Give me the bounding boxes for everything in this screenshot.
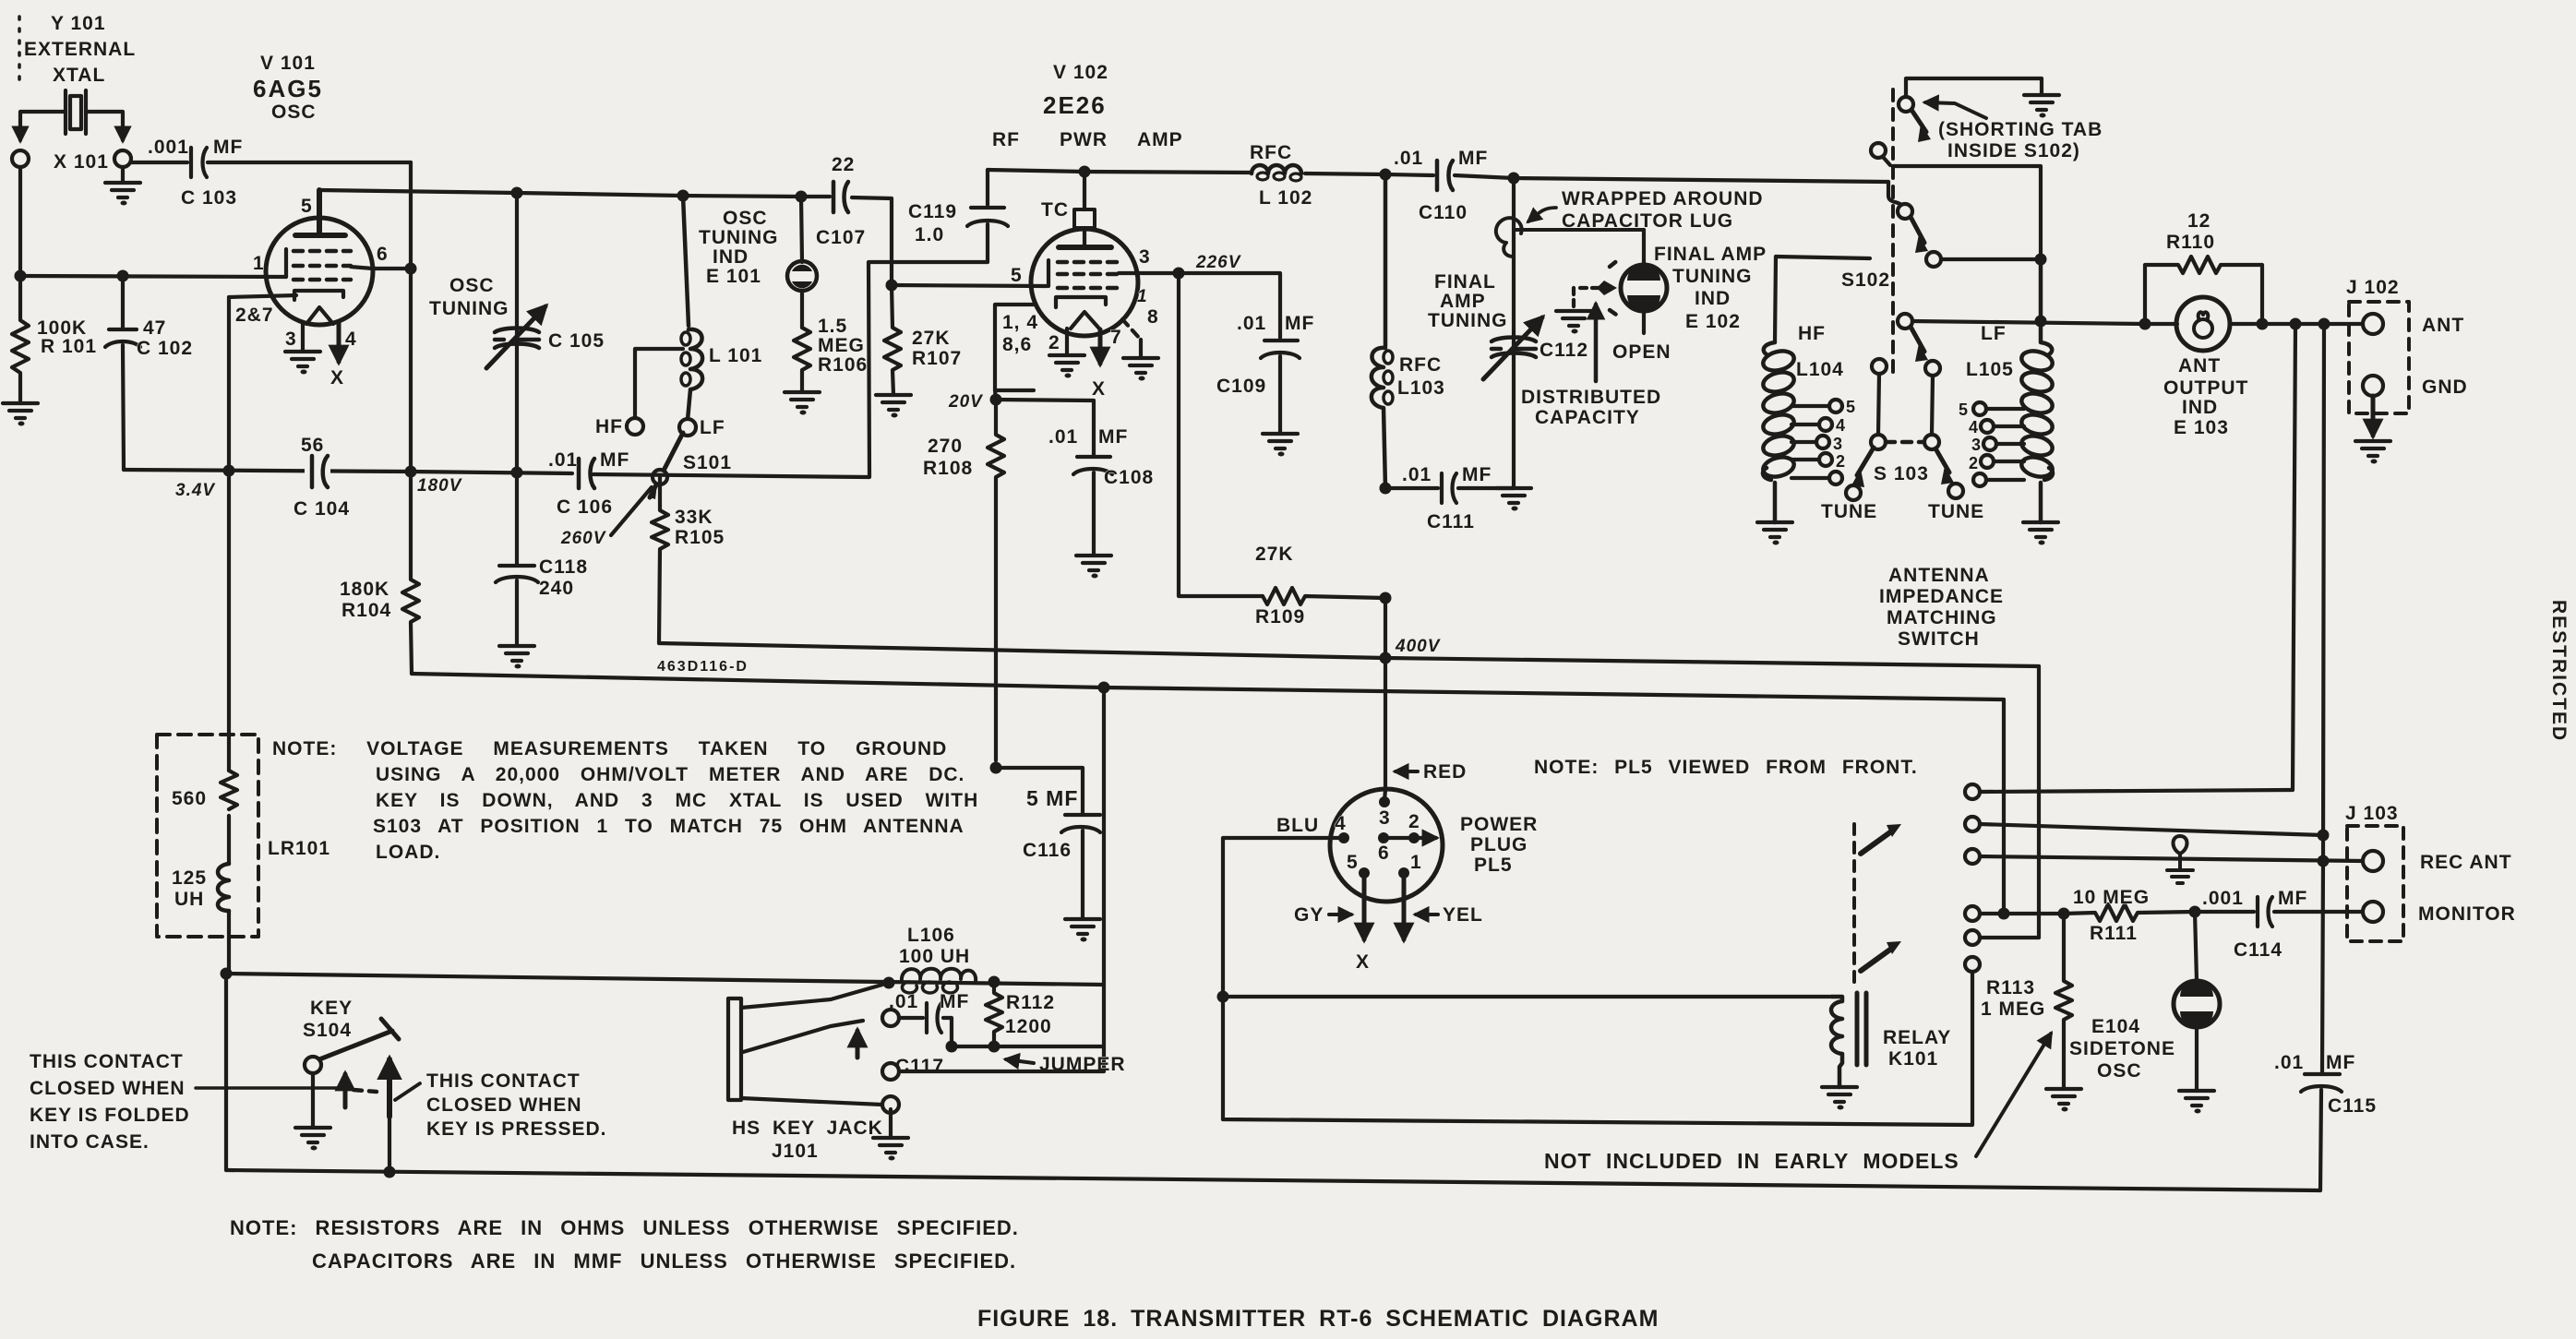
svg-text:R110: R110 xyxy=(2166,232,2215,253)
svg-text:180K: 180K xyxy=(340,579,389,600)
svg-text:4: 4 xyxy=(1969,418,1979,436)
svg-text:4: 4 xyxy=(1836,416,1846,435)
node relay c1 riser xyxy=(2290,318,2302,330)
svg-text:C116: C116 xyxy=(1023,840,1072,861)
svg-text:FINAL: FINAL xyxy=(1434,271,1496,293)
taps L105 xyxy=(1986,409,2024,480)
ground under X101 right xyxy=(121,167,125,183)
svg-text:R111: R111 xyxy=(2090,923,2138,944)
svg-text:1 MEG: 1 MEG xyxy=(1981,998,2045,1020)
svg-text:270: 270 xyxy=(928,436,963,457)
capacitor C102 xyxy=(105,276,140,470)
wire cathode lead to LR101 column xyxy=(229,295,296,471)
svg-text:1, 4: 1, 4 xyxy=(1002,312,1038,333)
wire crystal left lead xyxy=(20,112,66,140)
ground L105 xyxy=(2023,522,2058,545)
wire pressed contact to bottom bus xyxy=(388,1098,391,1172)
svg-text:E 103: E 103 xyxy=(2174,417,2229,438)
node 20V xyxy=(990,394,1002,406)
contact P4 xyxy=(1898,314,1912,329)
label THIS CONTACT CLOSED WHEN KEY IS PRESSED with leader xyxy=(395,1083,420,1100)
svg-text:TUNING: TUNING xyxy=(1672,266,1753,287)
svg-text:E104: E104 xyxy=(2091,1016,2140,1037)
svg-text:5: 5 xyxy=(1011,265,1023,286)
wire 400V line xyxy=(659,643,2039,938)
svg-text:MF: MF xyxy=(600,449,629,471)
terminal X101 left xyxy=(12,150,29,167)
wire P3 to column xyxy=(1941,257,2041,261)
pin 2 xyxy=(1408,832,1420,843)
svg-text:1200: 1200 xyxy=(1005,1016,1052,1037)
capacitor TC xyxy=(1083,172,1086,209)
svg-text:(SHORTING TAB: (SHORTING TAB xyxy=(1938,119,2103,140)
svg-text:RESTRICTED: RESTRICTED xyxy=(2548,600,2570,742)
svg-text:C109: C109 xyxy=(1216,376,1266,397)
resistor R104 xyxy=(402,472,419,674)
capacitor C106 xyxy=(579,459,594,488)
dashed armature link xyxy=(1852,824,1856,987)
ground R107 xyxy=(876,395,911,418)
node C111 junction xyxy=(1380,483,1392,495)
svg-text:TUNING: TUNING xyxy=(1428,310,1508,331)
wire bottom bus xyxy=(226,1170,2320,1190)
svg-text:TUNING: TUNING xyxy=(699,227,779,248)
svg-text:C111: C111 xyxy=(1427,511,1475,532)
taps L104 xyxy=(1791,406,1828,478)
svg-text:MF: MF xyxy=(940,991,969,1012)
svg-text:XTAL: XTAL xyxy=(53,65,105,86)
svg-text:C119: C119 xyxy=(908,201,957,222)
wire P2 loop to right column xyxy=(1893,166,2041,259)
wire P5 to S103 right pole xyxy=(1932,376,1933,435)
node R107 top xyxy=(886,280,898,292)
ground L104 xyxy=(1757,522,1792,545)
svg-text:2: 2 xyxy=(1048,332,1060,353)
svg-text:J101: J101 xyxy=(772,1141,819,1162)
resistor R111 xyxy=(2064,904,2195,921)
terminal J103 REC ANT xyxy=(2363,851,2383,871)
node C114 left xyxy=(2189,906,2201,918)
svg-text:1: 1 xyxy=(1410,852,1422,873)
svg-text:THIS CONTACT: THIS CONTACT xyxy=(30,1051,184,1072)
wire top bus V102 plate node xyxy=(988,170,1252,173)
node P3 column junction xyxy=(2035,254,2047,266)
svg-text:NOT INCLUDED IN EARLY MODELS: NOT INCLUDED IN EARLY MODELS xyxy=(1544,1149,1959,1173)
svg-text:ANT: ANT xyxy=(2422,315,2464,336)
svg-text:.01: .01 xyxy=(1402,464,1432,485)
svg-text:YEL: YEL xyxy=(1443,904,1483,926)
switch arm P1 xyxy=(1911,110,1926,132)
svg-text:C112: C112 xyxy=(1540,340,1588,361)
svg-text:CLOSED WHEN: CLOSED WHEN xyxy=(30,1078,186,1099)
svg-text:MF: MF xyxy=(213,137,243,158)
terminal X101 right xyxy=(114,150,131,167)
contact P3 xyxy=(1926,252,1941,267)
svg-text:X 101: X 101 xyxy=(54,151,109,173)
svg-text:226V: 226V xyxy=(1195,253,1241,272)
node C118 top xyxy=(511,467,523,479)
svg-text:NOTE: VOLTAGE MEASUREMENTS TAK: NOTE: VOLTAGE MEASUREMENTS TAKEN TO GROU… xyxy=(272,738,947,759)
svg-text:C 103: C 103 xyxy=(181,187,237,209)
capacitor C118 xyxy=(496,472,538,646)
svg-text:GY: GY xyxy=(1294,904,1324,926)
contact arrow pressed xyxy=(387,1059,392,1117)
node C102 junction xyxy=(117,270,129,282)
svg-text:CAPACITOR LUG: CAPACITOR LUG xyxy=(1562,210,1733,232)
S103 left wiper xyxy=(1857,448,1874,475)
wire pin3 xyxy=(1119,273,1280,338)
svg-text:V 101: V 101 xyxy=(260,53,316,74)
svg-text:EXTERNAL: EXTERNAL xyxy=(24,39,136,60)
svg-text:R109: R109 xyxy=(1255,606,1305,628)
svg-text:J 102: J 102 xyxy=(2346,277,2400,298)
resistor R101 xyxy=(12,276,29,403)
svg-text:10 MEG: 10 MEG xyxy=(2073,887,2150,908)
svg-text:C115: C115 xyxy=(2328,1095,2377,1117)
ground E104 xyxy=(2179,1091,2214,1114)
tube V102 plate xyxy=(1059,245,1111,250)
wire pin8 dashed xyxy=(1122,319,1141,340)
svg-text:X: X xyxy=(1356,951,1370,973)
node C117 jumper junction xyxy=(946,1041,958,1053)
ground R106 xyxy=(785,392,820,415)
svg-text:5: 5 xyxy=(1846,398,1856,416)
tube V102 grid rail xyxy=(1047,260,1050,286)
svg-text:2&7: 2&7 xyxy=(235,305,274,326)
capacitor C107 xyxy=(833,182,848,212)
svg-text:1.0: 1.0 xyxy=(915,224,944,245)
ground C109 xyxy=(1263,434,1298,457)
tube V101 plate xyxy=(295,190,345,235)
wire grid line to V101 pin1 xyxy=(20,276,286,277)
capacitor C108 xyxy=(1073,457,1112,556)
node cathode column xyxy=(223,465,235,477)
svg-text:2E26: 2E26 xyxy=(1043,91,1107,119)
svg-text:TUNE: TUNE xyxy=(1821,501,1877,522)
ground R101 xyxy=(3,403,38,426)
contact c4 monitor line xyxy=(1965,906,1980,921)
svg-text:R113: R113 xyxy=(1986,977,2035,998)
svg-text:2: 2 xyxy=(1836,452,1846,471)
pin 6 wire xyxy=(1378,832,1389,843)
inductor LR101 125UH xyxy=(218,864,229,911)
tube V102 heater xyxy=(1071,312,1099,329)
svg-text:180V: 180V xyxy=(417,476,462,496)
svg-text:2: 2 xyxy=(1969,454,1979,472)
wire 3.4V cathode line xyxy=(124,470,411,472)
svg-text:LOAD.: LOAD. xyxy=(376,842,440,863)
inductor L101 xyxy=(683,196,702,420)
svg-text:OUTPUT: OUTPUT xyxy=(2163,377,2248,399)
wire C115 column down xyxy=(2323,324,2324,861)
wire c1 riser down xyxy=(2293,324,2295,790)
terminal HF xyxy=(627,418,643,435)
svg-text:L106: L106 xyxy=(907,925,955,946)
wire P4 line to E103 xyxy=(1912,321,2145,324)
wire jumper line xyxy=(952,1045,1104,1048)
svg-text:MEG: MEG xyxy=(818,335,865,356)
svg-text:RF: RF xyxy=(992,129,1020,150)
capacitor C103 xyxy=(131,148,411,177)
svg-text:CAPACITORS ARE IN MMF UNLESS O: CAPACITORS ARE IN MMF UNLESS OTHERWISE S… xyxy=(312,1249,1016,1273)
svg-text:L 101: L 101 xyxy=(709,345,762,366)
svg-text:R108: R108 xyxy=(923,458,973,479)
crystal Y101 xyxy=(66,90,86,134)
svg-text:BLU: BLU xyxy=(1276,815,1319,836)
svg-text:L105: L105 xyxy=(1966,359,2014,380)
ground C116 xyxy=(1065,919,1100,942)
svg-text:TC: TC xyxy=(1041,199,1069,221)
dashed open lead with diamond xyxy=(1580,286,1602,290)
svg-text:OSC: OSC xyxy=(723,208,768,229)
ground C111/C112 xyxy=(1496,488,1531,511)
svg-text:5 MF: 5 MF xyxy=(1026,786,1078,810)
svg-text:ANTENNA: ANTENNA xyxy=(1888,565,1990,586)
svg-text:TUNING: TUNING xyxy=(429,298,509,319)
wire pin6 xyxy=(351,267,411,269)
svg-text:LF: LF xyxy=(1981,323,2007,344)
wire pin4 arrow xyxy=(337,322,341,362)
jack J101 sleeve xyxy=(882,1096,899,1113)
svg-text:C114: C114 xyxy=(2234,939,2282,961)
wire GND to ground xyxy=(2371,396,2376,436)
svg-text:IND: IND xyxy=(713,246,749,268)
node R112 bottom xyxy=(988,1041,1000,1053)
node C105 top xyxy=(511,187,523,199)
indicator lamp E102 xyxy=(1642,230,1646,333)
svg-text:S 103: S 103 xyxy=(1874,463,1929,484)
svg-text:Y 101: Y 101 xyxy=(51,13,106,34)
wire pin7 arrow xyxy=(1098,329,1103,364)
svg-text:RELAY: RELAY xyxy=(1883,1027,1951,1048)
svg-text:C 106: C 106 xyxy=(557,496,613,518)
svg-text:MF: MF xyxy=(2278,888,2307,909)
relay armature arm lower xyxy=(1861,947,1894,971)
ground shorting tab xyxy=(2024,95,2059,118)
svg-text:NOTE: PL5 VIEWED FROM FRONT.: NOTE: PL5 VIEWED FROM FRONT. xyxy=(1534,757,1918,778)
svg-text:.001: .001 xyxy=(2202,888,2244,909)
svg-text:AMP: AMP xyxy=(1440,291,1486,312)
svg-text:L104: L104 xyxy=(1796,359,1844,380)
svg-text:R106: R106 xyxy=(818,354,868,376)
tube V101 cathode xyxy=(294,291,343,300)
svg-text:C117: C117 xyxy=(895,1056,944,1077)
svg-text:6: 6 xyxy=(1378,843,1390,864)
contact arrow folded xyxy=(343,1074,348,1107)
svg-text:3: 3 xyxy=(285,329,297,350)
pin 4 xyxy=(1338,832,1349,843)
svg-text:MF: MF xyxy=(2326,1052,2355,1073)
svg-text:IND: IND xyxy=(2182,397,2218,418)
resistor R108 xyxy=(988,400,1004,760)
contact c5 xyxy=(1965,930,1980,945)
node E103 right xyxy=(2257,318,2269,330)
svg-text:SIDETONE: SIDETONE xyxy=(2069,1038,2175,1059)
node pin6/C103 junction xyxy=(405,263,417,275)
wrap lug symbol on REC ANT xyxy=(2174,836,2187,868)
arrow shorting tab pointer xyxy=(1925,102,1986,118)
svg-text:PL5: PL5 xyxy=(1474,855,1513,876)
svg-text:3.4V: 3.4V xyxy=(175,481,215,500)
svg-text:K101: K101 xyxy=(1888,1048,1938,1070)
svg-text:PLUG: PLUG xyxy=(1470,834,1528,855)
resistor R106 xyxy=(794,328,810,392)
plug PL5 circle xyxy=(1330,789,1443,902)
svg-text:22: 22 xyxy=(832,154,855,175)
svg-text:7: 7 xyxy=(1110,327,1122,348)
svg-text:REC ANT: REC ANT xyxy=(2420,852,2512,873)
wire HF tap xyxy=(635,349,683,418)
svg-text:HF: HF xyxy=(1798,323,1826,344)
resistor R109 xyxy=(1263,588,1385,604)
svg-text:27K: 27K xyxy=(912,328,951,349)
svg-text:2: 2 xyxy=(1408,811,1420,832)
node C115 column top xyxy=(2318,318,2330,330)
svg-text:.01: .01 xyxy=(1048,426,1078,448)
svg-text:C107: C107 xyxy=(816,227,866,248)
pin 5 xyxy=(1359,867,1370,879)
svg-text:3: 3 xyxy=(1379,807,1391,829)
label RED arrow xyxy=(1396,770,1418,773)
svg-text:HS KEY JACK: HS KEY JACK xyxy=(732,1118,883,1139)
ground R113 xyxy=(2046,1089,2081,1112)
svg-text:S104: S104 xyxy=(303,1020,352,1041)
contact c3 REC ANT line xyxy=(1965,849,1980,864)
svg-text:WRAPPED AROUND: WRAPPED AROUND xyxy=(1562,188,1764,209)
node line2 end xyxy=(1998,908,2010,920)
inductor L105 xyxy=(2041,259,2053,522)
svg-text:5: 5 xyxy=(301,196,313,217)
wire pin2 ground xyxy=(1065,329,1069,355)
svg-text:1: 1 xyxy=(253,253,265,274)
svg-text:3: 3 xyxy=(1833,435,1843,453)
ground C108 xyxy=(1076,556,1111,579)
pin 1 xyxy=(1398,867,1409,879)
svg-text:OPEN: OPEN xyxy=(1612,341,1671,363)
wire cathode column through LR101 xyxy=(226,471,229,1170)
wire X101 left down to grid line xyxy=(18,167,22,276)
svg-text:27K: 27K xyxy=(1255,544,1294,565)
svg-text:6AG5: 6AG5 xyxy=(253,75,323,102)
capacitor C116 xyxy=(996,768,1100,919)
svg-text:S102: S102 xyxy=(1841,269,1890,291)
tube V102 envelope xyxy=(1031,229,1138,336)
contact P2 with hook from bus xyxy=(1888,182,1901,205)
svg-text:E 101: E 101 xyxy=(706,266,761,287)
arrow distributed capacity xyxy=(1594,305,1599,381)
node C110/L103 junction xyxy=(1380,169,1392,181)
svg-text:INTO CASE.: INTO CASE. xyxy=(30,1131,150,1153)
indicator lamp E104 xyxy=(2195,912,2197,1091)
svg-text:R104: R104 xyxy=(341,600,391,621)
tube V101 envelope xyxy=(266,218,373,325)
node R113 top xyxy=(2058,908,2070,920)
dashed box J102 xyxy=(2349,302,2409,413)
svg-text:LR101: LR101 xyxy=(268,838,330,859)
resistor R110 loop xyxy=(2145,257,2262,324)
svg-text:USING A 20,000 OHM/VOLT METER: USING A 20,000 OHM/VOLT METER AND ARE DC… xyxy=(376,764,965,785)
svg-text:C 102: C 102 xyxy=(137,338,193,359)
svg-text:THIS CONTACT: THIS CONTACT xyxy=(426,1070,581,1092)
svg-text:DISTRIBUTED: DISTRIBUTED xyxy=(1521,387,1661,408)
S103 right pole xyxy=(1924,435,1939,449)
svg-text:X: X xyxy=(330,367,344,389)
node relay coil branch xyxy=(1217,991,1229,1003)
svg-text:3: 3 xyxy=(1139,246,1151,268)
svg-text:125: 125 xyxy=(172,867,207,889)
wire crystal right lead xyxy=(86,112,123,140)
node V102 plate top xyxy=(1079,166,1091,178)
svg-text:R107: R107 xyxy=(912,348,962,369)
svg-text:560: 560 xyxy=(172,788,207,809)
svg-text:12: 12 xyxy=(2187,210,2211,232)
capacitor C117 xyxy=(898,1003,952,1046)
svg-text:INSIDE S102): INSIDE S102) xyxy=(1947,140,2080,161)
svg-text:KEY IS DOWN, AND 3 MC XTAL IS: KEY IS DOWN, AND 3 MC XTAL IS USED WITH xyxy=(376,790,978,811)
node keying line left junction xyxy=(221,968,233,980)
S103 right wiper xyxy=(1935,448,1949,472)
switch S104 lever xyxy=(319,1019,399,1059)
inductor RFC L102 xyxy=(1252,165,1301,173)
svg-text:HF: HF xyxy=(595,416,623,437)
svg-text:KEY IS FOLDED: KEY IS FOLDED xyxy=(30,1105,190,1126)
svg-text:MF: MF xyxy=(1285,313,1314,334)
wire pin3 down to R109 xyxy=(1179,273,1263,596)
svg-text:X: X xyxy=(1092,378,1106,400)
svg-text:OSC: OSC xyxy=(2097,1060,2142,1082)
svg-text:MATCHING: MATCHING xyxy=(1887,607,1997,628)
svg-text:CLOSED WHEN: CLOSED WHEN xyxy=(426,1094,582,1116)
inductor RFC L103 xyxy=(1372,174,1385,488)
svg-text:R 101: R 101 xyxy=(41,336,97,357)
tube V101 grids xyxy=(294,251,351,280)
switch arm P2 xyxy=(1911,217,1924,243)
inductor L106 xyxy=(902,969,976,982)
svg-text:IMPEDANCE: IMPEDANCE xyxy=(1879,586,2004,607)
capacitor C111 xyxy=(1385,473,1514,503)
svg-text:KEY: KEY xyxy=(310,998,353,1019)
node X101/R101 junction xyxy=(15,270,27,282)
svg-text:PWR: PWR xyxy=(1060,129,1108,150)
svg-text:6: 6 xyxy=(377,244,389,265)
svg-text:8: 8 xyxy=(1147,306,1159,328)
dashed box LR101 xyxy=(157,735,258,937)
contact P5 xyxy=(1925,361,1940,376)
svg-text:TUNE: TUNE xyxy=(1928,501,1984,522)
jack J101 tip spring xyxy=(741,985,882,1008)
svg-text:.01: .01 xyxy=(2274,1052,2304,1073)
svg-text:OSC: OSC xyxy=(271,102,317,123)
svg-text:FIGURE 18. TRANSMITTER RT-6 SC: FIGURE 18. TRANSMITTER RT-6 SCHEMATIC DI… xyxy=(977,1306,1659,1332)
resistor 560 xyxy=(221,771,237,809)
jack J101 third contact xyxy=(882,1063,899,1080)
svg-text:3: 3 xyxy=(1971,436,1982,454)
svg-text:L103: L103 xyxy=(1397,377,1445,399)
wire grid line to V102 pin5 xyxy=(892,285,1047,286)
svg-text:KEY IS PRESSED.: KEY IS PRESSED. xyxy=(426,1118,607,1140)
wire top bus pin5/6 node V101 xyxy=(319,190,830,197)
svg-text:5: 5 xyxy=(1959,401,1969,419)
node 180V junction xyxy=(405,466,417,478)
svg-text:C 104: C 104 xyxy=(294,498,350,520)
node E103 left xyxy=(2139,318,2151,330)
label YEL arrow xyxy=(1416,913,1438,916)
wire pin3 xyxy=(301,322,305,352)
jack J101 ring contact line xyxy=(882,1010,899,1026)
capacitor C110 xyxy=(1437,161,1453,190)
relay armature arm upper xyxy=(1861,830,1894,854)
svg-text:100 UH: 100 UH xyxy=(899,946,970,967)
